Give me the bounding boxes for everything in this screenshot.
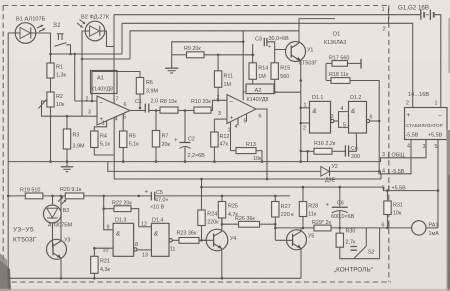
wire LED right to R1 node [36, 33, 51, 63]
wire input node rail y59 [82, 58, 130, 60]
wire PD right branch [105, 31, 114, 47]
wire LED left down left rail [8, 33, 15, 278]
wire bus3 rail to V1 collector [130, 31, 299, 59]
wire common rail ОБЩ [8, 140, 426, 162]
resistor R14 [249, 63, 256, 80]
stabilizer box СТАБИЛИЗАТОР [405, 108, 448, 140]
ground symbol on common rail [66, 162, 68, 167]
wire battery to right vertical [435, 15, 441, 108]
node terminal 1 [388, 8, 390, 15]
resistor R1 [47, 63, 54, 78]
wire D1 supply segment [299, 18, 335, 20]
wire R1-R2 [50, 78, 52, 92]
LED V3 АЛ307БМ [52, 196, 54, 205]
resistor R31 [384, 201, 391, 215]
resistor R6 [136, 78, 143, 95]
resistor R15 [271, 63, 278, 80]
resistor R12 [211, 132, 218, 147]
resistor R5 [120, 131, 127, 148]
wire R2 wiper to A1 pin3 [42, 101, 98, 116]
diode V2 Д9Е [321, 167, 330, 177]
transistor V1 КТ503Г [286, 42, 306, 62]
resistor R25 [218, 202, 225, 219]
wire base row y228 [275, 227, 314, 229]
wire D1.1 inputs feed [300, 81, 302, 162]
wire feedback A1 [92, 72, 140, 102]
resistor R24 [198, 210, 205, 226]
op-amp A1 [91, 71, 118, 94]
node terminal 5 [388, 185, 390, 191]
wire bottom feed rail [8, 195, 25, 197]
wire bus1 +supply top [114, 15, 421, 103]
wire from rail54 to pin2 [74, 54, 76, 101]
capacitor C4 [344, 145, 346, 156]
wire R2 bottom to rail [50, 107, 52, 162]
resistor R2 [47, 92, 54, 107]
capacitor C2 polar [184, 111, 186, 143]
node terminal 4 [378, 140, 411, 174]
resistor R27 [272, 202, 279, 218]
wire rail171 [108, 162, 321, 172]
meter P1 [412, 221, 426, 235]
wire bottom rail [8, 277, 301, 279]
resistor R11 [214, 71, 221, 88]
border frame dashed [3, 5, 389, 7]
resistor R7 [155, 111, 157, 131]
wire A1 pin4 to -5.5 rail [114, 118, 381, 179]
resistor R30 [336, 233, 343, 247]
wire V1 collector riser [298, 19, 300, 31]
op-amp A2 [246, 84, 274, 94]
switch S2 [365, 228, 367, 246]
wire R9 top elbow [172, 42, 244, 55]
resistor R4 [91, 131, 98, 148]
node terminal 2 [388, 17, 390, 24]
wire R22 feed riser [104, 196, 113, 230]
ground near R9 [171, 55, 173, 68]
node terminal 3 [388, 152, 390, 159]
resistor R3 [63, 129, 70, 149]
wire input node rail y54 [51, 53, 123, 55]
resistor R21 [91, 256, 98, 273]
wire rail187 plus5 [202, 140, 439, 191]
wire rail179 [380, 174, 382, 179]
resistor R28 [299, 202, 306, 217]
wire bus2 to stabilizer pin2 [122, 23, 413, 107]
node terminal 6 [388, 222, 390, 228]
wire PD left down [82, 31, 85, 116]
